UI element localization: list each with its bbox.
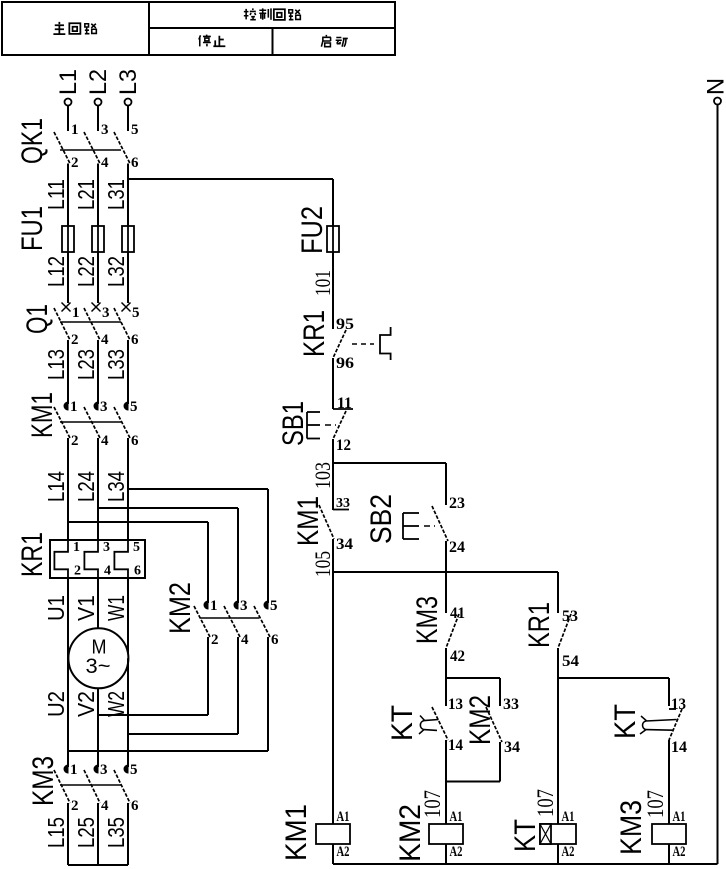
contactor KM2 main contacts pins 1-6 bbox=[164, 582, 279, 648]
svg-text:KR1: KR1 bbox=[16, 532, 49, 577]
svg-text:1: 1 bbox=[73, 540, 80, 555]
svg-text:5: 5 bbox=[131, 122, 139, 138]
wire KM2 pole 2 to V2 bbox=[98, 637, 208, 715]
wire KM3 42 to KT/KM2 parallel pair bbox=[446, 648, 500, 678]
svg-text:V2: V2 bbox=[73, 691, 99, 717]
svg-text:12: 12 bbox=[336, 437, 351, 454]
contactor KM3 NC interlock contact pins 41/42 bbox=[411, 596, 465, 665]
svg-text:U1: U1 bbox=[43, 595, 69, 621]
wire L11 QK1 to FU1 bbox=[43, 164, 69, 227]
svg-text:24: 24 bbox=[449, 539, 465, 556]
svg-text:A2: A2 bbox=[337, 844, 350, 860]
svg-text:KM1: KM1 bbox=[26, 392, 59, 438]
svg-text:6: 6 bbox=[131, 798, 139, 814]
wire L24 KM1 to KR1 heater bbox=[73, 438, 99, 540]
pushbutton SB1 stop NC contact pins 11/12 bbox=[277, 395, 353, 454]
wire tap L34 to KM2 pole 5 bbox=[128, 489, 268, 601]
wire star point bar bbox=[68, 864, 128, 866]
wire L32 FU1 to Q1 bbox=[103, 252, 129, 303]
svg-text:3: 3 bbox=[103, 540, 110, 555]
svg-text:KM2: KM2 bbox=[464, 695, 497, 745]
svg-text:2: 2 bbox=[71, 332, 79, 348]
wire node 105 bus bbox=[310, 539, 558, 577]
pushbutton SB2 start NO contact pins 23/24 bbox=[365, 494, 465, 556]
svg-text:96: 96 bbox=[336, 355, 354, 372]
svg-text:3~: 3~ bbox=[86, 655, 111, 678]
svg-text:4: 4 bbox=[101, 798, 109, 814]
svg-text:1: 1 bbox=[71, 122, 79, 138]
node L1 supply terminal bbox=[55, 69, 82, 106]
svg-text:W1: W1 bbox=[103, 595, 129, 621]
coil KT time relay coil A1/A2 bbox=[509, 809, 576, 864]
svg-text:L33: L33 bbox=[103, 349, 129, 380]
svg-text:3: 3 bbox=[100, 399, 108, 415]
svg-text:L12: L12 bbox=[43, 256, 69, 287]
svg-text:KM3: KM3 bbox=[27, 756, 60, 806]
svg-text:L24: L24 bbox=[73, 471, 99, 502]
wire L33 Q1 to KM1 bbox=[103, 340, 129, 402]
relay KR1 contact pins 53/54 bbox=[523, 602, 579, 670]
svg-text:A1: A1 bbox=[450, 809, 463, 825]
svg-text:5: 5 bbox=[130, 762, 138, 778]
svg-text:FU1: FU1 bbox=[16, 206, 49, 251]
svg-text:1: 1 bbox=[70, 762, 78, 778]
wire L14 KM1 to KR1 heater bbox=[43, 438, 69, 540]
wire control-circuit feeder from L31 to FU2 bbox=[128, 179, 333, 226]
svg-text:V1: V1 bbox=[73, 595, 99, 621]
contactor KM2 auxiliary NO contact pins 33/34 bbox=[464, 695, 520, 756]
wire node 107 to KM3 coil bbox=[643, 740, 669, 824]
wire node 101 FU2 to KR1 contact bbox=[310, 252, 335, 329]
svg-text:A2: A2 bbox=[673, 844, 686, 860]
wire node 103 SB1 to KM1 aux / SB2 branch bbox=[310, 439, 446, 510]
svg-text:6: 6 bbox=[131, 433, 139, 449]
thermal relay KR1 heater elements pins 1-6 bbox=[16, 532, 145, 579]
svg-text:107: 107 bbox=[533, 789, 558, 817]
svg-text:5: 5 bbox=[132, 305, 140, 321]
wire L2 to QK1 pin 3 bbox=[97, 106, 99, 132]
wire tap L14 to KM2 pole 1 bbox=[68, 522, 208, 601]
coil KM3 contactor coil A1/A2 bbox=[615, 800, 686, 864]
svg-text:6: 6 bbox=[131, 332, 139, 348]
svg-text:4: 4 bbox=[241, 632, 249, 648]
node N neutral terminal and rail bbox=[703, 78, 726, 864]
svg-text:KM3: KM3 bbox=[615, 800, 648, 855]
coil KM1 contactor coil A1/A2 bbox=[280, 804, 350, 864]
wire KR1 54 to KT coil and KT2 branch bbox=[558, 648, 669, 824]
svg-text:1: 1 bbox=[70, 399, 78, 415]
svg-text:SB1: SB1 bbox=[277, 401, 310, 446]
wire L21 QK1 to FU1 bbox=[73, 164, 99, 227]
wire V1 KR1 to motor bbox=[73, 578, 99, 628]
wire KM2 pole 6 to U2 bbox=[68, 637, 268, 751]
svg-text:5: 5 bbox=[270, 598, 278, 614]
svg-text:6: 6 bbox=[271, 632, 279, 648]
table: circuit section header bbox=[2, 2, 395, 55]
svg-text:14: 14 bbox=[448, 737, 463, 754]
contactor KM3 main contacts pins 1-6 bbox=[27, 756, 139, 814]
breaker Q1 3-pole with x contact marks, pins 1-6 bbox=[21, 303, 140, 349]
svg-text:U2: U2 bbox=[43, 691, 69, 717]
wire SB2 24 to node 105 bbox=[445, 541, 447, 572]
svg-text:L25: L25 bbox=[73, 817, 99, 848]
wire tap L24 to KM2 pole 3 bbox=[98, 508, 238, 601]
svg-text:23: 23 bbox=[449, 495, 465, 512]
svg-text:2: 2 bbox=[211, 632, 219, 648]
svg-text:A2: A2 bbox=[562, 844, 575, 860]
wire L22 FU1 to Q1 bbox=[73, 252, 99, 303]
svg-text:L3: L3 bbox=[115, 69, 142, 95]
svg-text:QK1: QK1 bbox=[16, 118, 49, 164]
svg-text:KM2: KM2 bbox=[164, 582, 197, 634]
svg-text:5: 5 bbox=[133, 540, 140, 555]
time relay KT delayed NO contact pins 13/14 bbox=[386, 696, 463, 754]
svg-text:L31: L31 bbox=[103, 179, 129, 210]
contactor KM1 auxiliary NO contact pins 33/34 bbox=[292, 496, 353, 553]
wire L12 FU1 to Q1 bbox=[43, 252, 69, 303]
svg-text:105: 105 bbox=[310, 551, 335, 577]
wire L31 QK1 to FU1 bbox=[103, 164, 129, 227]
svg-text:L21: L21 bbox=[73, 179, 99, 210]
wire KT contact branch bbox=[445, 678, 447, 706]
wire node 107 to KM2 coil bbox=[420, 782, 446, 825]
svg-text:34: 34 bbox=[336, 536, 353, 553]
fuse FU2 bbox=[296, 206, 339, 254]
wire KT second contact branch bbox=[668, 678, 670, 706]
wire KM2 aux branch bbox=[499, 678, 501, 706]
svg-text:13: 13 bbox=[671, 696, 686, 713]
breaker QK1 3-pole knife switch with pins 1-6 bbox=[16, 118, 139, 171]
svg-text:2: 2 bbox=[71, 155, 79, 171]
svg-text:103: 103 bbox=[310, 462, 335, 489]
svg-text:L1: L1 bbox=[55, 69, 82, 95]
svg-text:3: 3 bbox=[101, 122, 109, 138]
svg-text:4: 4 bbox=[101, 155, 109, 171]
svg-text:KR1: KR1 bbox=[523, 602, 556, 648]
svg-text:A1: A1 bbox=[562, 809, 575, 825]
svg-text:A1: A1 bbox=[337, 809, 350, 825]
svg-text:54: 54 bbox=[562, 653, 579, 670]
node L2 supply terminal bbox=[85, 69, 112, 106]
svg-text:2: 2 bbox=[71, 798, 79, 814]
svg-text:KM2: KM2 bbox=[394, 804, 427, 862]
wire L35 KM3 to star point bbox=[103, 803, 129, 865]
svg-text:L11: L11 bbox=[43, 179, 69, 210]
svg-text:33: 33 bbox=[503, 696, 519, 713]
svg-text:L2: L2 bbox=[85, 69, 112, 95]
svg-text:4: 4 bbox=[101, 433, 109, 449]
contactor KM1 main contacts pins 1-6 bbox=[26, 392, 139, 449]
wire W1 KR1 to motor bbox=[103, 578, 129, 765]
svg-text:KR1: KR1 bbox=[298, 310, 331, 357]
svg-text:101: 101 bbox=[310, 270, 335, 296]
motor M 3~ bbox=[68, 628, 128, 688]
svg-text:KT: KT bbox=[609, 704, 642, 739]
svg-text:L34: L34 bbox=[103, 471, 129, 502]
thermal relay KR1 NC contact pins 95/96 with trip symbol bbox=[298, 310, 391, 372]
wire V2 motor to KM3 bbox=[73, 688, 99, 765]
svg-text:3: 3 bbox=[100, 762, 108, 778]
wire L23 Q1 to KM1 bbox=[73, 340, 99, 402]
svg-text:A2: A2 bbox=[450, 844, 463, 860]
wire U1 KR1 to motor bbox=[43, 578, 69, 765]
wire L1 to QK1 pin 1 bbox=[67, 106, 69, 132]
svg-text:6: 6 bbox=[134, 564, 141, 579]
coil KM2 contactor coil A1/A2 bbox=[394, 804, 463, 864]
svg-text:KM1: KM1 bbox=[292, 496, 325, 546]
wire L3 to QK1 pin 5 bbox=[127, 106, 129, 132]
svg-text:L14: L14 bbox=[43, 471, 69, 502]
svg-text:14: 14 bbox=[671, 739, 687, 756]
svg-text:W2: W2 bbox=[103, 691, 129, 717]
svg-text:1: 1 bbox=[72, 305, 80, 321]
svg-text:2: 2 bbox=[74, 564, 81, 579]
svg-text:SB2: SB2 bbox=[365, 494, 398, 544]
svg-text:2: 2 bbox=[71, 433, 79, 449]
svg-text:KT: KT bbox=[386, 705, 419, 741]
node L3 supply terminal bbox=[115, 69, 142, 106]
svg-text:KM3: KM3 bbox=[411, 596, 444, 644]
wire U2 motor to KM3 bbox=[43, 658, 69, 765]
svg-text:5: 5 bbox=[130, 399, 138, 415]
wire KM1 coil branch from node 105 bbox=[332, 572, 334, 824]
svg-text:4: 4 bbox=[104, 564, 111, 579]
svg-text:1: 1 bbox=[210, 598, 218, 614]
svg-text:Q1: Q1 bbox=[21, 304, 54, 334]
time relay KT delayed contact pins 13/14 (KM3 branch) bbox=[609, 696, 687, 756]
svg-text:L32: L32 bbox=[103, 256, 129, 287]
svg-text:13: 13 bbox=[448, 696, 463, 713]
svg-text:KT: KT bbox=[509, 819, 542, 852]
svg-text:3: 3 bbox=[102, 305, 110, 321]
svg-text:4: 4 bbox=[101, 332, 109, 348]
wire KR1 contact branch from node 105 bbox=[557, 572, 559, 613]
wire bottom return bus to N bbox=[333, 863, 718, 865]
wire KR1 96 to SB1 11 bbox=[332, 358, 334, 409]
wire L34 KM1 to KR1 heater bbox=[103, 438, 129, 540]
wire KM2 34 to rejoin bar bbox=[446, 742, 500, 782]
wire KT 14 to rejoin bar bbox=[445, 740, 447, 782]
node 107 label at KT coil bbox=[533, 789, 558, 817]
svg-text:N: N bbox=[703, 78, 726, 95]
svg-text:34: 34 bbox=[504, 739, 520, 756]
svg-text:L15: L15 bbox=[43, 817, 69, 848]
wire L13 Q1 to KM1 bbox=[43, 340, 69, 402]
wire SB2 branch down bbox=[445, 463, 447, 505]
wire KM3 interlock branch bbox=[445, 572, 447, 613]
wire L15 KM3 to star point bbox=[43, 803, 69, 865]
svg-text:KM1: KM1 bbox=[280, 804, 313, 861]
svg-text:6: 6 bbox=[131, 155, 139, 171]
fuse FU1 (three fuses) bbox=[16, 206, 134, 252]
svg-text:L22: L22 bbox=[73, 256, 99, 287]
wire KM2 pole 4 to W2 bbox=[128, 637, 238, 734]
svg-text:FU2: FU2 bbox=[296, 206, 329, 254]
svg-text:3: 3 bbox=[240, 598, 248, 614]
svg-text:L23: L23 bbox=[73, 349, 99, 380]
svg-text:L35: L35 bbox=[103, 817, 129, 848]
svg-text:L13: L13 bbox=[43, 349, 69, 380]
wire L25 KM3 to star point bbox=[73, 803, 99, 865]
wire W2 motor to KM3 bbox=[103, 658, 129, 765]
svg-text:A1: A1 bbox=[673, 809, 686, 825]
svg-text:42: 42 bbox=[450, 648, 465, 665]
